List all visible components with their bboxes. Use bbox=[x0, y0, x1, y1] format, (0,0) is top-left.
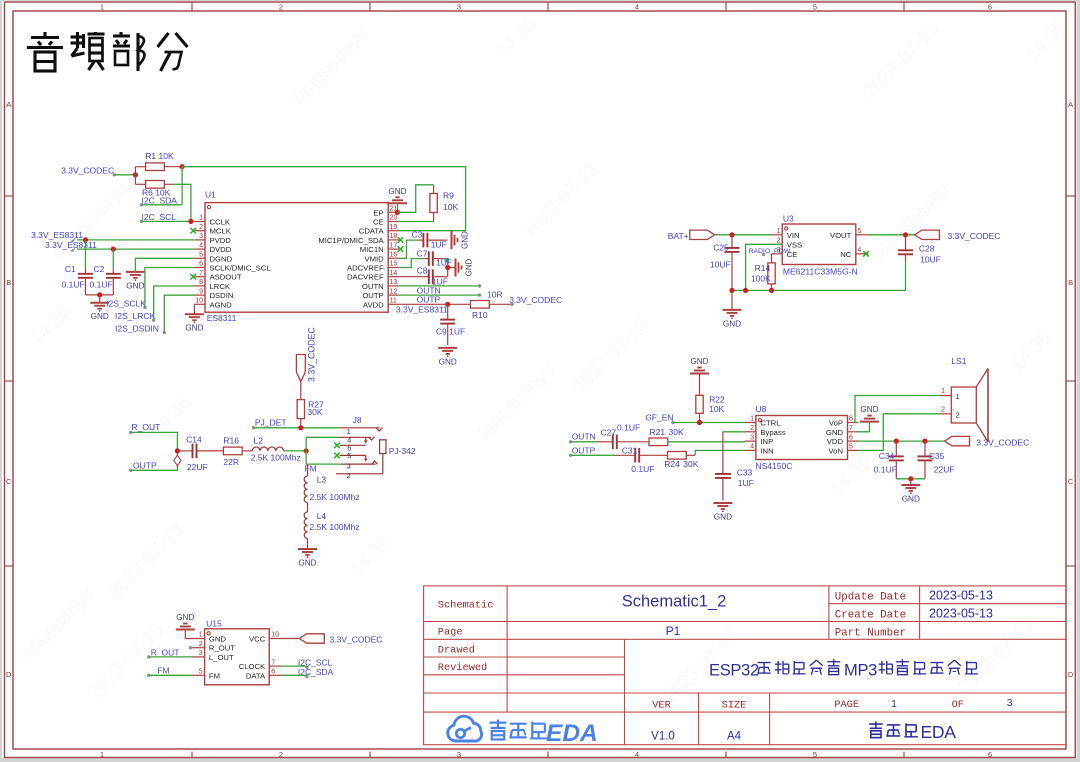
connector J8 jack label bbox=[353, 415, 416, 456]
resistor R1 bbox=[135, 151, 182, 170]
port 3.3V_CODEC at U15 bbox=[299, 634, 382, 645]
wire R_OUT to L_OUT pin3 bbox=[149, 656, 192, 658]
svg-text:C7: C7 bbox=[417, 249, 428, 259]
wire EP to R9 top bbox=[398, 185, 434, 213]
svg-text:R16: R16 bbox=[223, 436, 239, 446]
svg-text:17: 17 bbox=[390, 242, 398, 249]
svg-text:10: 10 bbox=[271, 632, 279, 639]
ground C33 bbox=[713, 503, 732, 522]
net label 3.3V_CODEC at R10 bbox=[509, 295, 562, 306]
op-amp U1 body (ES8311 codec) bbox=[205, 190, 388, 323]
net label I2C_SDA at U15 bbox=[298, 667, 334, 678]
svg-text:3.3V_CODEC: 3.3V_CODEC bbox=[509, 295, 562, 305]
net label OUTP at amp bbox=[569, 446, 596, 457]
wire Bypass horizontal bbox=[723, 431, 745, 433]
svg-text:B: B bbox=[1068, 278, 1073, 287]
svg-text:4: 4 bbox=[635, 2, 639, 11]
junction C34C35 gnd bbox=[908, 476, 913, 481]
svg-text:MP3: MP3 bbox=[844, 662, 877, 680]
project title ESP32 mini eink MP3 radio bbox=[709, 659, 978, 679]
wire R1 to U1 CDATA pin19 bbox=[182, 167, 466, 231]
ground C7 C8 bbox=[448, 258, 474, 276]
svg-text:GND: GND bbox=[185, 324, 203, 333]
wire 3.3V_CODEC to R1/R6 bbox=[114, 174, 135, 176]
title block grid bbox=[424, 586, 1066, 745]
svg-text:C27: C27 bbox=[601, 428, 617, 438]
wire R9 to CE pin20 bbox=[399, 221, 434, 223]
svg-text:Drawed: Drawed bbox=[438, 644, 475, 656]
border row ticks and letters bbox=[5, 100, 1076, 679]
svg-text:U15: U15 bbox=[206, 618, 222, 628]
U3 right pins bbox=[830, 228, 868, 259]
wire jack pin4 feed bbox=[306, 436, 340, 438]
svg-text:4: 4 bbox=[199, 242, 203, 249]
svg-text:PAGE: PAGE bbox=[834, 699, 859, 711]
svg-text:D: D bbox=[1068, 670, 1074, 679]
svg-text:CLOCK: CLOCK bbox=[239, 662, 266, 671]
resistor R24 bbox=[664, 452, 698, 470]
wire bottom rail U3 bbox=[732, 289, 906, 291]
svg-text:2: 2 bbox=[279, 2, 283, 11]
svg-text:30K: 30K bbox=[307, 407, 322, 417]
svg-text:OUTP: OUTP bbox=[362, 291, 383, 300]
svg-text:MIC1P/DMIC_SDA: MIC1P/DMIC_SDA bbox=[318, 236, 384, 245]
junction C34 tap bbox=[894, 439, 899, 444]
jack J8 pin lines and switches bbox=[336, 427, 386, 480]
wire EP to ground bbox=[397, 203, 399, 212]
wire 3.3V_ES8311 to PVDD pin3 bbox=[77, 239, 194, 241]
wire SCLK pin6 to I2S_SCLK bbox=[145, 268, 195, 308]
inductor L2 bbox=[251, 436, 301, 463]
U8 right pins bbox=[826, 416, 859, 456]
svg-text:10K: 10K bbox=[709, 404, 724, 414]
capacitor C8 bbox=[399, 266, 448, 287]
wire OUTP to C31 bbox=[571, 454, 615, 456]
capacitor C1 bbox=[62, 240, 94, 295]
ground C3 bbox=[452, 231, 470, 249]
wire C34 C35 bottoms bbox=[896, 478, 925, 480]
junction C9 tap bbox=[445, 302, 450, 307]
svg-text:1: 1 bbox=[956, 392, 960, 401]
ground C9 bbox=[438, 348, 457, 367]
svg-text:U1: U1 bbox=[205, 190, 216, 200]
port 3.3V_CODEC at amp bbox=[945, 436, 1030, 447]
svg-text:2023-05-13: 2023-05-13 bbox=[929, 588, 993, 602]
net label FM at jack bbox=[304, 463, 316, 473]
resistor R6 bbox=[135, 181, 173, 198]
svg-text:C33: C33 bbox=[737, 467, 753, 477]
svg-text:4: 4 bbox=[635, 750, 639, 759]
svg-text:GND: GND bbox=[902, 495, 920, 504]
svg-text:13: 13 bbox=[390, 279, 398, 286]
svg-text:VOUT: VOUT bbox=[830, 231, 852, 240]
svg-text:CCLK: CCLK bbox=[210, 218, 231, 227]
svg-text:VER: VER bbox=[652, 700, 671, 712]
svg-text:2.5K 100Mhz: 2.5K 100Mhz bbox=[310, 522, 360, 532]
capacitor C28 bbox=[898, 235, 941, 291]
junction C1C2 gnd bbox=[97, 292, 102, 297]
svg-text:U8: U8 bbox=[756, 404, 767, 414]
svg-text:10K: 10K bbox=[443, 202, 458, 212]
wire VDD rail bbox=[859, 440, 945, 442]
junction C7C8 gnd bbox=[445, 265, 450, 270]
svg-text:16: 16 bbox=[390, 252, 398, 259]
wire I2C_SCL to U1 pin1 bbox=[141, 220, 194, 222]
junction R27 PJ_DET bbox=[298, 425, 303, 430]
svg-text:D: D bbox=[6, 670, 12, 679]
svg-text:NS4150C: NS4150C bbox=[756, 461, 793, 471]
svg-text:5: 5 bbox=[347, 451, 351, 460]
capacitor C34 bbox=[874, 441, 904, 479]
svg-text:14: 14 bbox=[390, 270, 398, 277]
svg-text:2.5K 100Mhz: 2.5K 100Mhz bbox=[310, 492, 360, 502]
svg-text:ESP32: ESP32 bbox=[709, 662, 759, 680]
wire U8 GND pin to ground bbox=[859, 422, 870, 432]
svg-text:9: 9 bbox=[199, 288, 203, 295]
svg-text:R9: R9 bbox=[443, 191, 454, 201]
U3 NC no-connect mark bbox=[863, 251, 869, 257]
net label GF_EN bbox=[645, 413, 674, 424]
svg-text:A: A bbox=[6, 100, 11, 109]
wire CLOCK to I2C_SCL bbox=[282, 665, 307, 667]
net label I2C_SDA bbox=[140, 195, 178, 206]
svg-text:GND: GND bbox=[176, 613, 194, 622]
svg-text:C: C bbox=[6, 477, 12, 486]
wire OUTN to C27 bbox=[571, 441, 597, 443]
U1 no-connect marks pins 2 and 7 bbox=[190, 228, 196, 280]
svg-text:BAT+: BAT+ bbox=[668, 231, 689, 241]
net label 3.3V_ES8311 upper bbox=[31, 230, 83, 243]
svg-text:GF_EN: GF_EN bbox=[645, 413, 673, 423]
svg-text:I2S_SCLK: I2S_SCLK bbox=[106, 298, 146, 308]
svg-text:FM: FM bbox=[304, 463, 316, 473]
ground U8 pin7 bbox=[860, 405, 879, 422]
svg-text:C34: C34 bbox=[879, 451, 895, 461]
svg-text:6: 6 bbox=[988, 2, 992, 11]
svg-text:30K: 30K bbox=[669, 427, 684, 437]
svg-text:10K: 10K bbox=[159, 151, 174, 161]
svg-text:I2C_SCL: I2C_SCL bbox=[142, 212, 177, 222]
svg-text:GND: GND bbox=[126, 281, 144, 290]
capacitor C7 bbox=[417, 249, 452, 268]
wire jack pin3 feed bbox=[306, 463, 341, 465]
wire C7 C8 right join bbox=[447, 259, 449, 277]
wire DATA to I2C_SDA bbox=[282, 674, 307, 676]
ground U15 pin1 bbox=[176, 613, 195, 630]
svg-text:2: 2 bbox=[347, 471, 351, 480]
svg-text:1UF: 1UF bbox=[431, 240, 447, 250]
svg-text:7: 7 bbox=[199, 270, 203, 277]
wire R1-R6 left vertical bbox=[134, 167, 136, 185]
ground C1 C2 bbox=[90, 295, 109, 321]
capacitor C27 bbox=[597, 423, 649, 450]
svg-text:AGND: AGND bbox=[210, 300, 233, 309]
svg-text:GND: GND bbox=[461, 231, 470, 249]
wire C1 C2 bottoms bbox=[86, 294, 114, 296]
junction 3.3V_CODEC bbox=[133, 172, 138, 177]
LS1 pins bbox=[940, 388, 951, 414]
svg-text:FM: FM bbox=[209, 671, 220, 680]
svg-text:3.3V_CODEC: 3.3V_CODEC bbox=[948, 231, 1001, 241]
svg-text:2023-05-13: 2023-05-13 bbox=[929, 606, 993, 620]
inductor L3 bbox=[304, 464, 359, 502]
svg-text:3.3V_CODEC: 3.3V_CODEC bbox=[61, 166, 114, 176]
svg-text:3.3V_CODEC: 3.3V_CODEC bbox=[976, 438, 1029, 448]
wire VoN to speaker pin2 bbox=[859, 414, 941, 451]
svg-text:NC: NC bbox=[840, 250, 852, 259]
net label I2S_DSDIN bbox=[115, 323, 166, 334]
svg-text:ES8311: ES8311 bbox=[207, 313, 237, 323]
wire PJ_DET to jack pin1 bbox=[254, 427, 341, 429]
junction R14 rail bbox=[769, 288, 774, 293]
net label OUTP at jack bbox=[129, 461, 157, 472]
svg-text:OUTP: OUTP bbox=[417, 295, 441, 305]
svg-text:Create Date: Create Date bbox=[835, 609, 906, 621]
wire L2 to jack bbox=[284, 450, 307, 452]
svg-text:6: 6 bbox=[271, 669, 275, 676]
svg-text:I2C_SDA: I2C_SDA bbox=[142, 195, 178, 205]
svg-text:C28: C28 bbox=[919, 243, 935, 253]
wire VOUT to port bbox=[868, 234, 914, 236]
svg-text:DATA: DATA bbox=[246, 671, 266, 680]
capacitor C2 bbox=[90, 249, 121, 295]
net label I2S_SCLK bbox=[106, 298, 146, 309]
capacitor C14 bbox=[177, 434, 223, 471]
wire R6 to I2C_SCL bbox=[173, 184, 191, 221]
wire GF_EN to CTRL bbox=[673, 422, 745, 424]
svg-text:MCLK: MCLK bbox=[210, 227, 232, 236]
svg-text:GND: GND bbox=[723, 319, 741, 328]
svg-text:A: A bbox=[1068, 100, 1073, 109]
svg-text:FM: FM bbox=[157, 665, 169, 675]
svg-text:C35: C35 bbox=[929, 451, 945, 461]
svg-text:3.3V_ES8311: 3.3V_ES8311 bbox=[396, 305, 448, 315]
svg-text:CDATA: CDATA bbox=[359, 227, 385, 236]
svg-text:3.3V_CODEC: 3.3V_CODEC bbox=[307, 327, 317, 382]
resistor R9 bbox=[430, 185, 459, 222]
svg-text:CE: CE bbox=[373, 218, 384, 227]
svg-text:Update Date: Update Date bbox=[835, 592, 906, 604]
svg-text:EDA: EDA bbox=[921, 722, 957, 742]
svg-text:1: 1 bbox=[891, 699, 897, 710]
svg-text:VoP: VoP bbox=[829, 419, 843, 428]
capacitor C33 bbox=[715, 467, 754, 500]
svg-text:3: 3 bbox=[199, 650, 203, 657]
regulator U3 body (ME6211) bbox=[782, 214, 858, 277]
svg-text:ASDOUT: ASDOUT bbox=[210, 273, 242, 282]
svg-text:VDD: VDD bbox=[827, 437, 844, 446]
svg-text:OUTP: OUTP bbox=[133, 461, 157, 471]
wire 3.3V_ES8311 to DVDD pin4 bbox=[77, 248, 194, 250]
net label OUTN at U1 bbox=[417, 284, 482, 295]
ground AGND pin10 bbox=[185, 304, 204, 332]
svg-text:OUTN: OUTN bbox=[572, 432, 596, 442]
svg-text:OUTN: OUTN bbox=[362, 282, 384, 291]
resistor R14 bbox=[751, 254, 775, 291]
net label I2C_SCL bbox=[140, 212, 177, 223]
svg-text:22UF: 22UF bbox=[187, 462, 208, 472]
svg-text:VCC: VCC bbox=[249, 635, 266, 644]
svg-text:GND: GND bbox=[860, 405, 878, 414]
svg-text:I2S_DSDIN: I2S_DSDIN bbox=[115, 323, 159, 333]
svg-text:C31: C31 bbox=[622, 445, 638, 455]
svg-text:8: 8 bbox=[199, 279, 203, 286]
resistor R16 bbox=[223, 436, 252, 467]
svg-text:DSDIN: DSDIN bbox=[210, 291, 234, 300]
svg-text:3: 3 bbox=[347, 462, 351, 471]
svg-text:C8: C8 bbox=[417, 266, 428, 276]
sheet title text (audio section) bbox=[27, 32, 188, 71]
svg-text:3: 3 bbox=[457, 2, 461, 11]
EDA logo bbox=[448, 716, 598, 747]
speaker LS1 bbox=[951, 356, 988, 442]
U1 no-connect marks pins 18 and 17 bbox=[398, 237, 404, 252]
jack no-connect marks pins 6 and 5 bbox=[334, 443, 340, 459]
svg-text:0.1UF: 0.1UF bbox=[874, 465, 897, 475]
svg-text:C14: C14 bbox=[186, 434, 202, 444]
svg-text:L_OUT: L_OUT bbox=[209, 653, 234, 662]
svg-text:1: 1 bbox=[941, 388, 945, 395]
amplifier U8 body (NS4150C) bbox=[756, 404, 848, 471]
svg-text:INN: INN bbox=[760, 446, 773, 455]
wire R1 junction down to I2C_SDA bbox=[181, 167, 183, 205]
wire VCC to port bbox=[282, 638, 299, 640]
svg-text:GND: GND bbox=[209, 635, 227, 644]
svg-text:0.1UF: 0.1UF bbox=[62, 280, 85, 290]
svg-text:L3: L3 bbox=[317, 474, 327, 484]
wire R24 to INN bbox=[695, 450, 745, 455]
svg-text:R21: R21 bbox=[650, 427, 666, 437]
svg-text:U3: U3 bbox=[783, 214, 794, 224]
ground above R22 bbox=[690, 357, 709, 374]
wire I2C_SDA bbox=[141, 204, 182, 206]
wire R24 right lead bbox=[686, 454, 695, 456]
svg-text:8: 8 bbox=[849, 416, 853, 423]
svg-text:18: 18 bbox=[390, 233, 398, 240]
net label R_OUT bbox=[129, 422, 160, 434]
title block labels bbox=[438, 592, 1013, 712]
wire DSDIN pin9 to I2S_DSDIN bbox=[164, 295, 194, 332]
wire OUTN pin13 bbox=[399, 285, 480, 287]
wire VMID pin16 to C3 bbox=[399, 240, 418, 258]
svg-text:22UF: 22UF bbox=[934, 465, 955, 475]
svg-text:30K: 30K bbox=[683, 459, 698, 469]
svg-text:2: 2 bbox=[750, 425, 754, 432]
svg-text:RADIO_POW: RADIO_POW bbox=[749, 248, 791, 255]
svg-text:1UF: 1UF bbox=[738, 478, 754, 488]
svg-text:5: 5 bbox=[849, 444, 853, 451]
svg-text:5: 5 bbox=[199, 252, 203, 259]
svg-text:DVDD: DVDD bbox=[210, 245, 232, 254]
svg-text:3: 3 bbox=[457, 750, 461, 759]
svg-text:3: 3 bbox=[199, 233, 203, 240]
net label 3.3V_ES8311 lower bbox=[45, 240, 97, 252]
svg-text:3: 3 bbox=[750, 434, 754, 441]
svg-text:DGND: DGND bbox=[210, 254, 233, 263]
vendor name text bbox=[869, 722, 956, 742]
svg-text:C25: C25 bbox=[713, 242, 729, 252]
U15 left pins bbox=[192, 632, 236, 681]
svg-text:Bypass: Bypass bbox=[760, 428, 785, 437]
diamond net marker bbox=[174, 455, 181, 465]
svg-text:19: 19 bbox=[390, 224, 398, 231]
svg-text:5: 5 bbox=[813, 750, 817, 759]
ground DGND pin5 bbox=[126, 272, 145, 291]
chip U15 body bbox=[205, 618, 270, 685]
svg-text:1: 1 bbox=[777, 228, 781, 235]
svg-text:GND: GND bbox=[298, 559, 316, 568]
svg-text:P1: P1 bbox=[666, 624, 681, 638]
unconnected dot U15 pin2 bbox=[189, 646, 192, 649]
svg-text:DACVREF: DACVREF bbox=[347, 273, 384, 282]
svg-text:6: 6 bbox=[988, 750, 992, 759]
svg-text:VoN: VoN bbox=[828, 446, 843, 455]
net label FM at U15 bbox=[147, 665, 170, 677]
svg-text:6: 6 bbox=[199, 261, 203, 268]
svg-text:7: 7 bbox=[849, 425, 853, 432]
wire VoP to speaker pin1 bbox=[855, 396, 940, 423]
U15 right pins bbox=[239, 632, 282, 681]
svg-text:C2: C2 bbox=[94, 264, 105, 274]
wire ADCVREF pin15 to C7 bbox=[399, 259, 423, 268]
svg-text:5: 5 bbox=[199, 669, 203, 676]
net label RADIO_POW bbox=[749, 248, 791, 257]
svg-text:LS1: LS1 bbox=[951, 356, 966, 366]
svg-text:GND: GND bbox=[690, 357, 708, 366]
svg-text:OF: OF bbox=[952, 699, 964, 711]
svg-text:EDA: EDA bbox=[546, 720, 598, 747]
wire jack left vertical bbox=[305, 437, 307, 464]
svg-text:2: 2 bbox=[956, 411, 960, 420]
net label PJ_DET bbox=[252, 418, 287, 430]
junction jack common bbox=[304, 448, 309, 453]
svg-text:4: 4 bbox=[750, 444, 754, 451]
net label OUTN at amp bbox=[569, 432, 596, 444]
U1 right pins 11-21 bbox=[318, 206, 399, 310]
wire OUTP pin12 bbox=[399, 294, 480, 296]
junction VSS rail bbox=[743, 288, 748, 293]
svg-text:SCLK/DMIC_SCL: SCLK/DMIC_SCL bbox=[210, 264, 272, 273]
svg-text:ADCVREF: ADCVREF bbox=[347, 264, 384, 273]
svg-text:GND: GND bbox=[388, 187, 406, 196]
svg-text:10UF: 10UF bbox=[710, 259, 731, 269]
junction gnd rail left bbox=[729, 288, 734, 293]
junction EP bbox=[395, 210, 400, 215]
svg-text:Page: Page bbox=[438, 627, 463, 639]
junction R22 GF_EN bbox=[697, 420, 702, 425]
svg-text:OUTP: OUTP bbox=[572, 446, 596, 456]
svg-text:MIC1N: MIC1N bbox=[360, 245, 384, 254]
ground C34 C35 bbox=[901, 479, 920, 504]
svg-text:12: 12 bbox=[390, 288, 398, 295]
svg-text:VIN: VIN bbox=[787, 231, 800, 240]
svg-text:1: 1 bbox=[100, 2, 104, 11]
svg-text:J8: J8 bbox=[353, 415, 362, 425]
capacitor C35 bbox=[918, 441, 955, 479]
svg-text:10UF: 10UF bbox=[920, 254, 941, 264]
capacitor C25 bbox=[710, 235, 740, 291]
wire BAT+ to VIN bbox=[715, 234, 772, 236]
svg-text:CTRL: CTRL bbox=[760, 419, 781, 428]
junction C28 tap bbox=[903, 232, 908, 237]
wire R_OUT to C14 bbox=[131, 432, 178, 451]
junction C35 tap bbox=[922, 439, 927, 444]
junction C25 tap bbox=[729, 232, 734, 237]
svg-text:3.3V_CODEC: 3.3V_CODEC bbox=[330, 635, 383, 645]
svg-text:GND: GND bbox=[826, 428, 844, 437]
svg-text:C3: C3 bbox=[412, 229, 423, 239]
svg-text:2: 2 bbox=[777, 238, 781, 245]
